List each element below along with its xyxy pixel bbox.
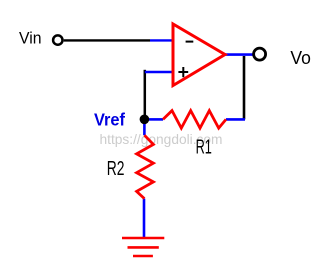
svg-text:R2: R2 (107, 158, 125, 180)
svg-text:Vin: Vin (19, 28, 42, 47)
svg-text:Vref: Vref (94, 109, 125, 129)
svg-text:Vo: Vo (290, 47, 311, 68)
svg-text:R1: R1 (196, 136, 212, 158)
